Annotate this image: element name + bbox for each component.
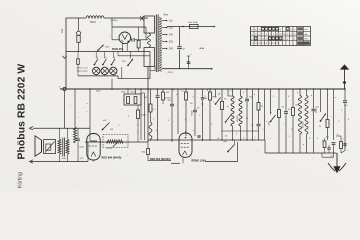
svg-text:Sich 0,8A: Sich 0,8A <box>188 21 198 24</box>
fuse F1 <box>182 21 198 29</box>
svg-text:4,5V: 4,5V <box>80 158 85 160</box>
svg-text:~220V: ~220V <box>167 72 174 74</box>
rail speaker bottom <box>31 161 88 163</box>
wire lower link <box>148 160 171 162</box>
rail y140 <box>148 139 265 141</box>
paper speckle texture <box>37 19 348 185</box>
wire drop with cap <box>201 89 207 141</box>
svg-text:REN 904 (W4100): REN 904 (W4100) <box>150 158 171 161</box>
wire V2 cathode <box>87 142 89 162</box>
capacitor C2 <box>156 89 160 140</box>
capacitor C6 <box>284 89 291 153</box>
antenna input mark <box>62 56 66 59</box>
transformer taps <box>162 20 173 51</box>
resistor R12 <box>292 89 298 153</box>
wire lamp return <box>112 52 150 90</box>
title Koerting (rotated) <box>18 172 24 188</box>
capacitor C4 <box>193 89 201 137</box>
wire lamp rail <box>66 51 150 53</box>
transformer T2 core <box>63 138 65 157</box>
svg-text:W: W <box>319 126 321 128</box>
coil L4 <box>239 89 242 140</box>
fuse holder <box>76 31 80 35</box>
resistor box pair <box>121 89 141 105</box>
svg-text:220: 220 <box>169 41 174 44</box>
resistor R3 zigzag <box>74 89 77 143</box>
ground symbol <box>322 153 346 173</box>
resistor R13 <box>326 89 329 140</box>
svg-text:50000: 50000 <box>107 148 114 150</box>
svg-text:2W: 2W <box>110 129 113 131</box>
svg-text:1MΩ: 1MΩ <box>121 92 126 94</box>
svg-text:50000: 50000 <box>131 92 137 94</box>
svg-text:A-St: A-St <box>200 47 205 50</box>
speaker magnet <box>44 140 56 154</box>
wire drop <box>264 89 266 140</box>
switch S1 lamp <box>94 52 98 66</box>
potentiometer element <box>106 140 123 143</box>
potentiometer P1 box <box>103 135 128 148</box>
transformer T1 primary coil <box>148 34 151 48</box>
wires T2 <box>60 128 68 161</box>
svg-text:2: 2 <box>343 139 344 141</box>
svg-text:500000: 500000 <box>237 114 239 122</box>
label REN 904 <box>150 158 171 161</box>
wire mains down <box>179 27 181 47</box>
transformer T1 primary boxes <box>144 16 155 67</box>
label Netz <box>164 14 170 17</box>
wire rect to trafo <box>112 38 148 42</box>
wire speaker top rail <box>33 127 90 129</box>
switch X1 on rail <box>140 16 144 20</box>
svg-text:weiße u.rote: weiße u.rote <box>77 67 89 70</box>
svg-text:W: W <box>246 118 248 120</box>
label RENS 1264 <box>192 159 207 163</box>
wire lamp bottoms <box>78 75 118 79</box>
label RGN 354 <box>112 47 124 51</box>
svg-text:Skalenlamp.: Skalenlamp. <box>77 71 89 73</box>
terminal plus <box>59 84 66 90</box>
switch S8 <box>224 140 235 152</box>
label extras <box>225 136 305 147</box>
coil L1 mains choke <box>86 16 104 24</box>
svg-text:50000: 50000 <box>141 115 147 117</box>
svg-text:0,1: 0,1 <box>326 137 329 139</box>
svg-text:Körting: Körting <box>18 172 24 188</box>
wire left vertical <box>65 18 67 89</box>
svg-text:2kΩ: 2kΩ <box>142 151 146 153</box>
antenna symbol <box>340 64 349 89</box>
svg-text:(10000): (10000) <box>111 20 118 22</box>
capacitor C3 <box>168 89 175 142</box>
svg-text:1 2 3 4 5 6 7 8 9 10 11 12 13: 1 2 3 4 5 6 7 8 9 10 11 12 13 <box>252 43 280 45</box>
speaker LS cone <box>35 136 42 156</box>
lamp LP3 <box>110 67 117 74</box>
svg-text:110: 110 <box>169 20 173 23</box>
coil L3 <box>231 89 234 140</box>
label pot value <box>107 148 114 150</box>
potentiometer wiper <box>113 143 118 147</box>
resistor R5 <box>149 89 152 122</box>
switch S6 <box>270 89 276 122</box>
coil L2 <box>149 109 156 141</box>
terminal top <box>30 127 34 130</box>
rail y142 <box>85 141 148 143</box>
svg-text:RES 964 (B443): RES 964 (B443) <box>102 156 122 160</box>
lamp LP1 <box>93 67 100 74</box>
table voltage chart <box>251 27 311 46</box>
resistor R2 tap <box>77 52 80 76</box>
transformer T1 core <box>156 15 158 73</box>
svg-text:b: b <box>114 57 115 59</box>
resistor R9 <box>221 89 228 140</box>
label 500000 v2 <box>303 120 305 128</box>
svg-text:50000: 50000 <box>192 110 194 116</box>
svg-text:2MΩ: 2MΩ <box>212 97 217 99</box>
value labels <box>96 90 350 142</box>
resistor R11 <box>278 89 285 153</box>
svg-text:5mA: 5mA <box>62 157 67 160</box>
wire top rail <box>66 17 148 19</box>
resistor R6 <box>162 89 172 104</box>
junction dots rail <box>157 139 253 140</box>
resistor R4 <box>136 105 147 142</box>
switch S3 lamp <box>111 52 115 66</box>
capacitor C5 <box>245 89 253 140</box>
caps cluster <box>323 89 347 158</box>
switch S7 <box>320 89 326 122</box>
labels a c <box>87 103 89 113</box>
wire heater drop <box>150 67 155 71</box>
svg-text:MΩ: MΩ <box>204 98 208 100</box>
resistor R14 grid leak <box>137 27 140 52</box>
resistor R8 <box>209 89 218 141</box>
rail y153 <box>265 140 337 153</box>
svg-text:240: 240 <box>169 48 174 51</box>
resistor R15 <box>142 142 150 161</box>
svg-text:gW: gW <box>224 141 227 143</box>
wire mains cord <box>162 68 213 74</box>
terminal bottom <box>30 160 34 163</box>
label Ant <box>60 29 64 33</box>
switch S9 on rail <box>97 45 110 51</box>
svg-text:b: b <box>105 57 106 59</box>
wire antenna drop <box>341 89 347 153</box>
coil L6 <box>305 89 308 153</box>
svg-text:k: k <box>193 130 194 132</box>
svg-text:125: 125 <box>169 27 174 30</box>
svg-text:4W: 4W <box>166 92 169 94</box>
svg-text:Heiz: Heiz <box>304 39 308 41</box>
resistor R10 <box>257 89 265 140</box>
label RES 964 <box>102 156 122 160</box>
wire drop <box>177 89 179 134</box>
transformer T1 secondary <box>159 18 162 72</box>
capacitor C9 mains <box>177 47 185 69</box>
wire mains rail <box>167 26 216 28</box>
rail mid bottom <box>205 142 238 162</box>
wire tube heater <box>118 52 150 56</box>
transformer T2 winding b <box>66 139 69 155</box>
wire to tube V2 <box>89 89 91 134</box>
svg-text:RENS 1264: RENS 1264 <box>192 159 207 163</box>
label lamp note <box>77 67 89 73</box>
wire drop <box>252 89 254 140</box>
switch S2 lamp <box>102 52 106 66</box>
resistor R1 <box>77 35 80 51</box>
label 1000 vert <box>269 121 271 126</box>
svg-text:Volt: Volt <box>304 28 308 31</box>
junction dots bus <box>89 88 346 90</box>
switch W <box>102 120 110 131</box>
wire speaker feed <box>64 91 66 129</box>
wire coil bottoms link <box>222 130 259 132</box>
label 50000 vert <box>192 110 194 116</box>
switch S4 220V <box>122 52 133 67</box>
label rail value <box>111 20 118 22</box>
label 4000 vert <box>316 108 318 113</box>
tube V2 RES964 <box>87 134 100 162</box>
svg-text:aW: aW <box>144 97 147 99</box>
coil L5 <box>298 89 301 153</box>
svg-text:1M: 1M <box>295 105 298 107</box>
label 500000 v1 <box>237 114 239 122</box>
wire second vertical <box>78 18 80 31</box>
capacitor C8 <box>76 128 84 161</box>
svg-text:Ant: Ant <box>60 29 64 33</box>
bus rail <box>60 88 345 90</box>
svg-text:145: 145 <box>169 34 174 37</box>
svg-text:Phöbus RB 2202 W: Phöbus RB 2202 W <box>17 64 28 160</box>
switch S5 <box>215 89 221 105</box>
svg-text:RGN 354: RGN 354 <box>112 47 124 51</box>
wire grid loop <box>112 18 146 40</box>
labels speaker values <box>62 157 85 160</box>
wire pair <box>141 89 145 140</box>
capacitor C7 <box>312 89 320 153</box>
tube V3 RENS1264 <box>171 131 192 163</box>
lamp LP2 <box>101 67 108 74</box>
svg-text:500Ω: 500Ω <box>90 22 96 24</box>
transformer T2 winding a <box>58 139 61 155</box>
svg-text:b: b <box>97 57 98 59</box>
title Phoebus RB 2202 W (rotated) <box>17 64 28 160</box>
svg-text:500000: 500000 <box>303 120 305 128</box>
wire trafo bottom drop <box>147 67 149 143</box>
connector stub <box>187 47 205 68</box>
tube V1 RGN354 <box>119 32 131 52</box>
wire drop <box>225 89 233 123</box>
resistor R7 <box>181 89 188 136</box>
